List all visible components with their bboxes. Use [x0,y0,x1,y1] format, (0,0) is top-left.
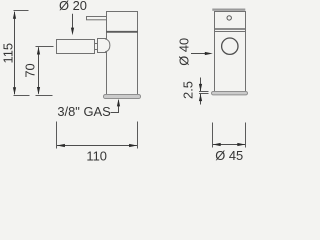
svg-text:2.5: 2.5 [181,81,196,99]
spout cap arc bulge [105,39,110,52]
dim 70 arrow up [37,47,40,55]
dim 115 line [14,12,16,94]
base plate (front view) [212,92,248,95]
dim 45 left extension [212,123,214,148]
dim 70 line [38,47,40,94]
spout circle (front view) [222,38,238,54]
dim 45 arrow right [237,143,245,146]
dim 115 arrow up [13,11,16,19]
svg-text:115: 115 [1,43,16,64]
svg-text:Ø 40: Ø 40 [176,38,191,66]
faucet body (side view) [107,12,138,95]
dim 115 top tick [14,10,29,12]
spout neck [95,44,98,50]
dim 2.5 bottom tick [199,93,209,95]
lever handle (side view) [87,17,107,20]
svg-text:70: 70 [23,63,38,77]
leader line for 3/8 GAS [111,100,119,112]
dim 70 arrow down [37,87,40,95]
lever end bar (front view) [212,9,245,11]
leader arrow for diameter 40 [191,53,206,55]
dim 110 arrow left [57,144,65,147]
cap bottom line (front view) [215,28,245,30]
svg-text:Ø 45: Ø 45 [215,148,243,163]
indicator dot (front view) [227,16,231,20]
body top line (front view) [215,31,245,33]
dim 115 arrow down [13,87,16,95]
dim 2.5 arrow down [199,84,202,91]
dim 110 arrow right [129,144,137,147]
leader arrow for diameter 20 [72,14,74,29]
dim 115 bottom tick [14,95,30,97]
base plate (side view) [104,95,141,99]
dim 110 right extension [137,122,139,149]
dim 70 bottom tick [36,95,53,97]
cartridge separation line (side view) [106,31,138,33]
dim 2.5 top tick [199,91,209,93]
dim 45 arrow left [213,143,221,146]
dim 70 top tick [36,46,54,48]
dim 2.5 arrow up [199,94,202,101]
svg-text:3/8" GAS: 3/8" GAS [57,104,110,119]
dim 2.5 upper line [200,78,202,92]
spout cap / aerator housing [98,39,107,53]
svg-text:Ø 20: Ø 20 [59,0,87,13]
spout tube (side view) [57,40,95,54]
dim 2.5 lower line [200,94,202,105]
dim 45 right extension [245,123,247,148]
dim 110 line [57,145,137,147]
dim 110 left extension [56,122,58,149]
faucet body (front view) [215,12,246,92]
svg-text:110: 110 [86,149,107,164]
dim 45 line [213,144,245,146]
